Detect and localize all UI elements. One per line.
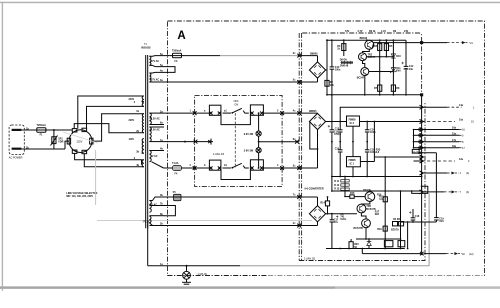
selector tab top-left <box>72 129 77 132</box>
svg-text:D10: D10 <box>396 55 401 58</box>
svg-text:6V3: 6V3 <box>439 220 444 223</box>
resistor R16 <box>383 197 387 202</box>
svg-text:78M05: 78M05 <box>348 159 356 162</box>
wire AC live <box>21 129 36 131</box>
svg-text:15a: 15a <box>452 132 457 135</box>
selector tab bottom-left <box>72 150 77 153</box>
connector module M1 <box>209 105 221 115</box>
transistor TR6 <box>362 219 371 228</box>
T1 secondary winding 27V b <box>149 73 151 82</box>
rail x400 <box>400 191 402 249</box>
svg-text:100n: 100n <box>370 131 376 134</box>
svg-text:R19: R19 <box>377 228 382 231</box>
svg-text:A: A <box>177 30 185 42</box>
wire selector bottom-left tab <box>75 153 142 159</box>
selector tab right <box>90 138 93 144</box>
svg-text:R 13: R 13 <box>334 188 340 191</box>
selector tab left <box>67 138 70 144</box>
wire D2 left vertex drop <box>310 122 318 150</box>
lamp ladder <box>258 113 260 131</box>
bridge rectifier D1 <box>309 62 325 78</box>
T1 primary winding aux <box>142 160 144 167</box>
svg-text:-7V AC: -7V AC <box>142 220 150 223</box>
svg-text:1,4V: 1,4V <box>381 30 386 33</box>
transistor TR3 <box>361 68 369 76</box>
svg-text:T1,6A: T1,6A <box>172 162 179 165</box>
output (12) <box>420 252 424 256</box>
wire 41.5V row1 <box>164 112 209 114</box>
cap C18 <box>412 209 414 218</box>
output 16 <box>422 129 459 131</box>
selector tab bottom-right <box>82 150 87 153</box>
IC2 out row <box>360 121 422 123</box>
svg-text:(2): (2) <box>466 172 469 175</box>
T1 secondary winding 41.5V a <box>149 113 151 124</box>
wire AC neutral <box>21 148 65 150</box>
15.2V box <box>412 149 419 153</box>
svg-text:27V AC: 27V AC <box>151 60 160 63</box>
wire fuse F3 to bridge D1 <box>182 55 318 57</box>
svg-text:5V6: 5V6 <box>396 70 401 73</box>
transistor TR1 <box>365 40 374 49</box>
svg-text:IC 2: IC 2 <box>350 122 355 125</box>
faint pencil artifacts <box>97 220 312 222</box>
svg-text:ON: ON <box>234 103 238 106</box>
inner solid pcb box <box>302 33 421 95</box>
svg-text:17a: 17a <box>452 139 457 142</box>
svg-text:1.MA.02: 1.MA.02 <box>304 257 316 261</box>
wire 27V AC bottom <box>164 81 318 83</box>
board 1.MA.02 dash boundary left <box>298 33 300 261</box>
connector module M4 <box>250 160 263 170</box>
thermal cutout <box>152 162 164 168</box>
svg-text:220V: 220V <box>77 140 83 143</box>
svg-text:BZX79: BZX79 <box>391 229 399 232</box>
capacitor C10 <box>331 40 333 67</box>
svg-text:BC547: BC547 <box>357 77 365 80</box>
T1 primary winding 110V <box>142 139 144 154</box>
svg-text:9-6 CONVERTER: 9-6 CONVERTER <box>305 188 324 191</box>
resistor R4 <box>379 40 381 95</box>
bridge rectifier D2 <box>309 113 325 129</box>
board 1.MA.02 dash boundary bottom <box>299 103 425 261</box>
pin 4c <box>297 111 301 115</box>
svg-text:AC POWER: AC POWER <box>9 157 23 160</box>
rail C11 <box>331 95 333 130</box>
jumper 5a-4a <box>164 67 175 73</box>
svg-text:D6-D9: D6-D9 <box>340 58 348 61</box>
jumper 7b-6b <box>164 206 175 216</box>
rail junction blobs <box>418 128 421 130</box>
svg-text:6k8: 6k8 <box>375 213 380 216</box>
svg-text:47u: 47u <box>334 221 339 224</box>
output rail junction blob <box>420 41 423 44</box>
svg-text:54V: 54V <box>345 30 350 33</box>
wire to bridge D2 bottom <box>317 129 319 168</box>
resistor R8 <box>391 85 395 91</box>
scan border left <box>2 2 3 291</box>
output 15 <box>422 121 455 123</box>
bracket feed <box>413 130 415 148</box>
svg-text:16a: 16a <box>452 127 457 130</box>
diode D10 <box>392 40 394 95</box>
lamp LP2 <box>256 148 261 153</box>
T1 secondary winding 7V b <box>149 216 151 223</box>
AC POWER terminal L <box>12 129 22 131</box>
wire fuse to selector <box>46 129 54 131</box>
regulator IC1 <box>347 157 361 167</box>
row +24V <box>340 106 422 108</box>
svg-text:27V AC: 27V AC <box>151 78 160 81</box>
svg-text:14a: 14a <box>459 104 464 107</box>
svg-text:220V: 220V <box>129 119 135 122</box>
top supply rail <box>327 39 406 41</box>
loop to minus row <box>412 186 428 193</box>
transistor TR2 <box>359 53 367 61</box>
switch linkage <box>234 113 236 168</box>
svg-text:R15: R15 <box>350 192 355 195</box>
svg-text:24V: 24V <box>404 30 409 33</box>
wire row1 to bridge D2 <box>299 112 317 114</box>
mains switch S2 pole1 <box>223 112 232 114</box>
output 4 <box>422 160 455 162</box>
row 253 out <box>361 249 363 254</box>
primary tap stubs <box>142 95 144 97</box>
lamp LP1 <box>256 131 261 136</box>
svg-text:8001002: 8001002 <box>141 47 151 50</box>
svg-text:78M05: 78M05 <box>348 118 356 121</box>
svg-text:C18: C18 <box>415 215 420 218</box>
TR6 emitter down <box>365 228 367 239</box>
svg-text:T500mA: T500mA <box>172 50 182 53</box>
zener boxes lower <box>384 241 393 247</box>
T1 secondary winding 27V a <box>149 56 151 65</box>
wire 27V AC top <box>164 55 173 57</box>
wire ground return <box>147 223 149 266</box>
svg-text:1MB05: 1MB05 <box>309 110 317 113</box>
wire lamp mid to board <box>259 141 300 143</box>
resistor R5 <box>385 40 387 57</box>
svg-text:1.MA.06: 1.MA.06 <box>198 273 208 276</box>
svg-text:C13: C13 <box>335 127 340 130</box>
pin with bar <box>210 139 212 145</box>
T1 primary winding 240/220V <box>142 96 144 106</box>
electrolytic plus marks <box>328 125 330 127</box>
fuse F5 thermal <box>174 194 182 200</box>
svg-text:VDR: VDR <box>58 140 63 143</box>
cap C14 <box>366 122 368 130</box>
svg-text:0,7V: 0,7V <box>358 30 363 33</box>
fuse F1 <box>37 128 46 132</box>
pin P2 <box>280 111 284 115</box>
svg-text:41.5V AC: 41.5V AC <box>150 118 161 121</box>
connector module M3 <box>209 160 221 170</box>
connector module M2 <box>250 105 263 115</box>
output 0 <box>422 134 459 136</box>
svg-text:10a: 10a <box>459 118 464 121</box>
wire D2 plus <box>326 121 347 123</box>
T1 secondary winding 7V a <box>149 201 151 213</box>
selector tab top-right <box>82 128 87 131</box>
transistor TR4 <box>365 192 375 202</box>
transformer T1 core <box>145 55 147 228</box>
svg-text:(12): (12) <box>469 253 474 256</box>
TR3 base row <box>369 71 394 73</box>
svg-text:100n: 100n <box>335 69 341 72</box>
svg-text:10u: 10u <box>409 68 414 71</box>
wire neutral to selector left tab <box>65 141 69 149</box>
svg-text:1.MA.15: 1.MA.15 <box>213 152 225 156</box>
zener D11 5V6 <box>390 68 397 73</box>
wire sense rail <box>373 122 375 158</box>
pin 5c <box>297 80 301 84</box>
row 222 pin <box>421 221 423 223</box>
svg-text:110V: 110V <box>129 138 135 141</box>
IC1 gnd down <box>352 167 354 177</box>
output (4) <box>422 191 444 193</box>
pin 3c <box>297 166 301 170</box>
capacitor C12 <box>405 40 407 66</box>
fuse F3 <box>173 53 182 58</box>
svg-text:12a: 12a <box>459 158 464 161</box>
cap C15 <box>339 142 341 150</box>
TR1 emitter out <box>372 43 421 48</box>
svg-text:T250mA: T250mA <box>37 124 47 127</box>
svg-text:IC 1: IC 1 <box>350 163 355 166</box>
svg-text:18a: 18a <box>452 145 457 148</box>
link wire below switch <box>221 115 250 124</box>
row 222 <box>401 221 437 223</box>
VDR R1 <box>53 130 55 149</box>
wire selector tap 220V <box>87 106 142 128</box>
wire D3 to TR5 <box>326 213 357 215</box>
resistor R2 <box>325 80 329 86</box>
resistor R3 <box>343 40 345 56</box>
svg-text:6V AC: 6V AC <box>151 155 158 158</box>
mid row 0V <box>352 141 354 143</box>
bridge rectifier D3 <box>309 206 325 222</box>
TR2 base row <box>367 56 394 58</box>
svg-text:C15: C15 <box>335 147 340 150</box>
AC POWER connector box <box>9 125 24 155</box>
row 0V long <box>332 176 422 178</box>
output 1 <box>422 106 447 108</box>
output 21V <box>422 42 447 44</box>
secondary pin stubs <box>149 55 164 58</box>
ground symbol <box>186 266 188 272</box>
svg-text:-7V AC: -7V AC <box>149 204 157 207</box>
AC POWER terminal N <box>12 148 22 150</box>
wire fade artifacts <box>220 55 298 57</box>
row 157 end <box>421 156 423 158</box>
svg-text:R6 1k: R6 1k <box>369 30 376 33</box>
svg-text:8-DIL: 8-DIL <box>340 218 347 221</box>
diode D12 <box>367 242 372 246</box>
wire selector tap 130V <box>93 114 142 141</box>
rail mid lower <box>384 157 386 249</box>
T1 primary winding 130V <box>142 114 144 133</box>
svg-text:(4): (4) <box>466 191 469 194</box>
svg-text:R 12: R 12 <box>334 184 340 187</box>
wire D1 plus rail <box>326 69 327 71</box>
svg-text:1N4148: 1N4148 <box>340 65 349 68</box>
pin 6c <box>297 54 301 58</box>
row minus <box>332 190 422 192</box>
junction <box>53 129 55 131</box>
svg-text:MK: 110, 130, 220, 240V: MK: 110, 130, 220, 240V <box>66 195 93 198</box>
mains switch S2 pole2 <box>223 167 232 169</box>
regulator IC2 <box>347 116 360 126</box>
resistor R20 <box>350 239 352 242</box>
resistor ladder R11 R12 R13 <box>344 177 346 197</box>
output 17 <box>422 147 459 149</box>
svg-text:15,2V: 15,2V <box>413 152 419 154</box>
TR3 emitter down <box>364 76 366 95</box>
svg-text:9-6V 3W: 9-6V 3W <box>244 133 254 136</box>
wire 7V row top <box>164 196 318 198</box>
svg-text:R 11: R 11 <box>334 180 340 183</box>
wire thermal fuse F4 <box>164 167 173 169</box>
resistor R19 <box>383 226 387 231</box>
row lower mid <box>356 238 401 240</box>
cap C13 <box>339 107 341 130</box>
diodes D6-D9 <box>341 62 353 64</box>
board A outline <box>168 21 485 276</box>
scan border bottom <box>0 286 500 289</box>
svg-text:D4 D5: D4 D5 <box>393 218 400 221</box>
wire selector bottom-right tab <box>84 154 141 167</box>
wire 7V row bottom <box>164 225 318 227</box>
resistor R7 <box>378 85 382 91</box>
T1 secondary winding 6V <box>149 151 151 162</box>
T1 secondary winding 41.5V b <box>149 127 151 142</box>
wire selector tap 240V <box>78 96 142 129</box>
pin P1 <box>193 111 197 115</box>
wire aux vertical <box>407 222 409 249</box>
IC1 out row <box>360 161 374 163</box>
zener Z1 Z2 <box>393 222 398 226</box>
cap C16 <box>366 142 368 150</box>
scan border top <box>0 2 500 4</box>
svg-text:41.5V AC: 41.5V AC <box>150 129 161 132</box>
faded bottom dash of board A <box>268 275 484 277</box>
TR4 base resistor R15 <box>354 196 365 198</box>
wire lamp feed <box>164 141 213 143</box>
cap C17 <box>331 214 333 220</box>
resistor R14 <box>327 197 329 201</box>
svg-text:1MB05: 1MB05 <box>310 53 318 56</box>
svg-text:3-6V 3W: 3-6V 3W <box>244 149 254 152</box>
board 1.MA.15 outline <box>195 95 283 186</box>
svg-text:R14: R14 <box>320 201 325 204</box>
wire selector tap 110V <box>74 124 141 133</box>
voltage selector S1 <box>69 130 92 153</box>
cap C19 <box>435 153 437 218</box>
output 8 <box>422 141 459 143</box>
transistor TR5 <box>357 204 366 213</box>
output (2) <box>422 172 447 174</box>
bottom row 248 <box>326 248 405 250</box>
bottom rail top section <box>327 94 422 96</box>
svg-text:BC547B: BC547B <box>354 227 363 230</box>
